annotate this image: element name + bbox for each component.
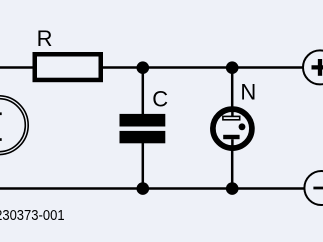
wire: top rail left segment into resistor [0,66,34,69]
node: junction bottom of N [226,182,239,195]
resistor R [35,54,101,80]
node: junction top of C [137,61,150,74]
capacitor C [120,114,166,143]
lamp N (neon indicator) [213,108,252,149]
terminal - (negative output) [304,171,323,205]
node: junction bottom of C [137,182,150,195]
connector (left edge, partly out of frame) [0,96,28,155]
svg-text:R: R [37,26,53,51]
node: junction top of N [226,61,239,74]
wire: bottom rail [0,187,305,190]
svg-text:C: C [152,87,168,112]
svg-text:230373-001: 230373-001 [0,206,65,223]
connector pins [0,112,2,115]
terminal + (positive output) [303,50,323,84]
lamp N gas dot [239,123,246,130]
lamp N bottom electrode [223,135,239,139]
wire: C upper lead [142,68,145,115]
wire: top rail from resistor to plus terminal [103,66,304,69]
lamp N internal stubs [231,108,234,116]
part number 230373-001 [0,206,65,223]
lamp N top electrode [223,116,240,119]
wire: N lower lead [231,147,234,189]
wire: N upper lead [231,68,234,112]
wire: C lower lead [142,143,145,189]
svg-text:N: N [240,79,256,104]
